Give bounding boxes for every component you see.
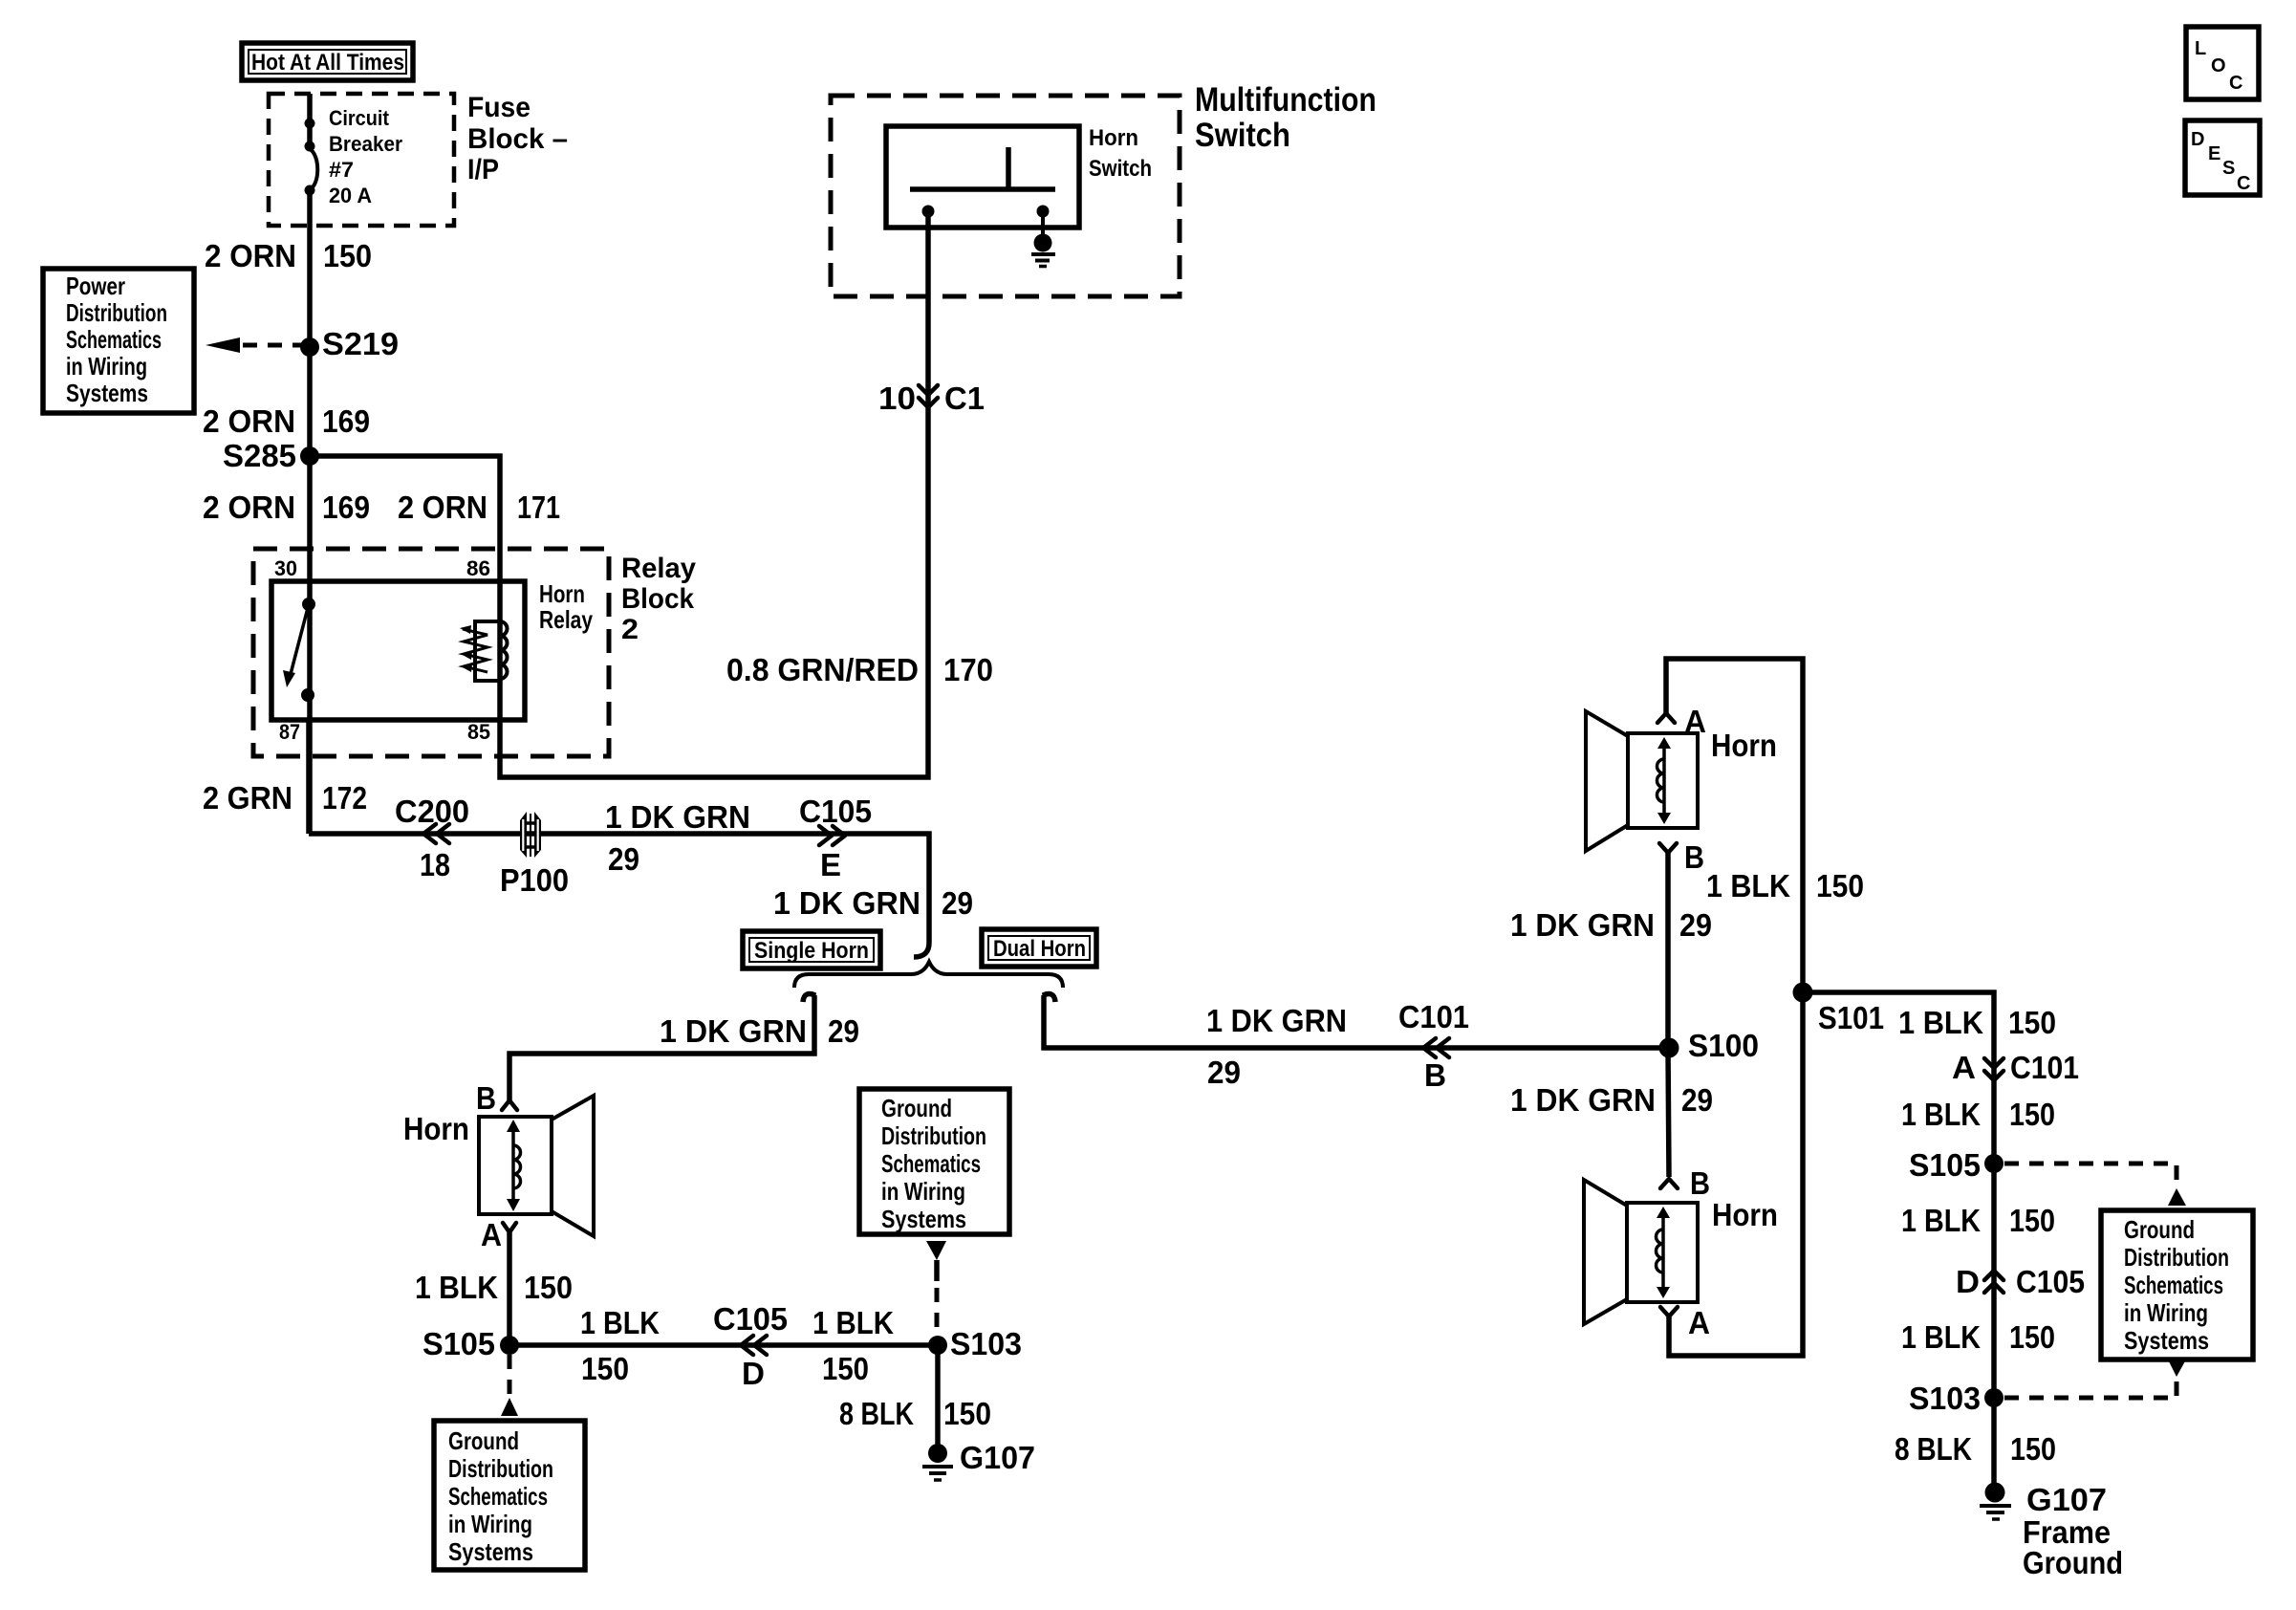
svg-text:1 BLK: 1 BLK [1901, 1097, 1981, 1132]
svg-text:2 ORN: 2 ORN [205, 238, 296, 273]
left horn terminal A yoke [503, 1223, 516, 1232]
svg-text:Horn: Horn [1089, 125, 1138, 151]
svg-text:C105: C105 [799, 794, 872, 829]
svg-text:Systems: Systems [2124, 1326, 2209, 1355]
fuse block dashed box [269, 94, 454, 226]
svg-text:S219: S219 [322, 326, 399, 361]
svg-text:S105: S105 [1909, 1147, 1981, 1183]
node S105 right [1909, 1147, 2004, 1183]
label Relay Block 2 [621, 553, 696, 645]
svg-text:I/P: I/P [467, 154, 499, 185]
svg-text:1 BLK: 1 BLK [580, 1305, 660, 1340]
top-right horn terminal B yoke [1659, 843, 1677, 853]
label 1 DK GRN 29 dual horn branch [1206, 1003, 1347, 1090]
label C101 B [1398, 999, 1469, 1093]
connector C105 chevrons D right [1984, 1271, 2004, 1293]
DESC reference box [2185, 120, 2260, 195]
svg-text:0.8 GRN/RED: 0.8 GRN/RED [726, 652, 919, 687]
label Multifunction Switch [1195, 81, 1376, 154]
box Power Distribution Schematics in Wiring Systems [43, 269, 194, 413]
label Horn Switch [1089, 125, 1152, 182]
svg-text:Horn: Horn [403, 1111, 469, 1146]
horn H3 bottom-right body [1584, 1180, 1698, 1324]
relay coil resistor zigzag [460, 625, 487, 672]
svg-text:Switch: Switch [1089, 156, 1152, 182]
svg-text:Ground: Ground [2124, 1215, 2195, 1244]
relay switch contact 30 [302, 598, 315, 611]
label 10 C1 [878, 381, 985, 416]
svg-text:1 BLK: 1 BLK [1898, 1005, 1983, 1040]
wire horn feed C200 to C105 to corner [309, 834, 929, 957]
label 1 BLK 150 left horn [415, 1270, 573, 1305]
svg-text:D: D [2191, 129, 2204, 150]
label box Dual Horn [982, 929, 1096, 967]
horn H3 coil arrow [1657, 1207, 1670, 1298]
svg-text:1 DK GRN: 1 DK GRN [1510, 907, 1655, 943]
label 1 DK GRN 29 single horn branch [660, 1013, 859, 1049]
dashed reference wire S105 to ground box [501, 1355, 518, 1416]
label 0.8 GRN/RED 170 [726, 652, 993, 687]
node S219 [300, 326, 399, 361]
wire relay 87 down to C200 run [306, 720, 312, 834]
label C105 D [713, 1301, 788, 1391]
svg-text:150: 150 [2008, 1005, 2056, 1040]
svg-text:169: 169 [322, 490, 370, 525]
label 2 ORN 150 [205, 238, 372, 273]
svg-text:29: 29 [1207, 1055, 1241, 1090]
connector C101 chevrons B [1423, 1038, 1449, 1057]
svg-text:B: B [1684, 839, 1704, 875]
horn switch ground wire [1041, 211, 1045, 236]
label 1 BLK 150 top right [1706, 868, 1864, 903]
svg-text:Relay: Relay [539, 605, 593, 634]
horn switch box [886, 126, 1079, 228]
bottom-right horn terminal B caret [1660, 1179, 1678, 1188]
wire horn switch to C1 to relay 85 corner [500, 211, 928, 777]
svg-text:10: 10 [878, 381, 916, 416]
label 1 BLK 150 below S105 right [1901, 1203, 2055, 1238]
ground G107 frame ground [1980, 1483, 2011, 1520]
label Circuit Breaker #7 20 A [329, 106, 402, 207]
relay coil wire pin 86 to 85 [497, 621, 503, 720]
wire dual horn branch [1043, 994, 1669, 1048]
label 1 BLK 150 right segment [812, 1305, 894, 1386]
relay switch contact 87 [301, 688, 314, 702]
dashed reference wire S103 right to ground box [2004, 1360, 2186, 1398]
wire left horn A to S105 [507, 1232, 512, 1345]
label Horn Relay [539, 579, 593, 634]
svg-text:Schematics: Schematics [881, 1149, 981, 1178]
svg-text:150: 150 [2010, 1431, 2056, 1467]
svg-text:C: C [2237, 173, 2250, 194]
svg-text:1 BLK: 1 BLK [415, 1270, 498, 1305]
svg-text:Circuit: Circuit [329, 106, 390, 130]
svg-text:29: 29 [828, 1013, 859, 1049]
label 2 GRN 172 [203, 780, 367, 816]
svg-text:29: 29 [1681, 1082, 1713, 1118]
svg-text:A: A [481, 1217, 502, 1252]
svg-text:Dual Horn: Dual Horn [993, 936, 1086, 962]
label 1 DK GRN 29 above brace [773, 885, 973, 921]
svg-text:C105: C105 [2016, 1264, 2085, 1299]
wire top-right horn A loop to S101 vertical [1666, 659, 1803, 1356]
svg-text:S285: S285 [223, 438, 296, 473]
LOC reference box [2186, 27, 2259, 99]
svg-text:1 BLK: 1 BLK [1901, 1319, 1981, 1355]
svg-text:O: O [2211, 55, 2226, 76]
svg-text:in Wiring: in Wiring [2124, 1298, 2208, 1327]
wire branch S285 to relay pin 86 [310, 456, 500, 621]
horn H2 coil arrow [1657, 737, 1671, 824]
svg-text:29: 29 [1679, 907, 1712, 943]
svg-text:C105: C105 [713, 1301, 788, 1337]
label 1 DK GRN 29 below S100 [1510, 1082, 1713, 1118]
relay block dashed box [253, 549, 609, 756]
svg-text:Schematics: Schematics [448, 1482, 548, 1511]
svg-text:150: 150 [2009, 1097, 2055, 1132]
svg-text:18: 18 [420, 847, 450, 882]
svg-text:S101: S101 [1818, 1000, 1884, 1035]
horn switch terminal left [922, 206, 935, 218]
svg-text:P100: P100 [500, 862, 569, 898]
label 1 DK GRN 29 on horn feed [605, 799, 750, 877]
label C105 E [799, 794, 872, 882]
svg-text:C200: C200 [395, 794, 469, 829]
node S105 left [422, 1326, 519, 1361]
svg-text:Fuse: Fuse [467, 92, 531, 123]
node S101 [1793, 983, 1885, 1036]
svg-text:Power: Power [66, 272, 125, 300]
node S285 [223, 438, 319, 473]
svg-text:150: 150 [581, 1351, 629, 1386]
svg-text:E: E [820, 847, 841, 882]
svg-text:Horn: Horn [1712, 1197, 1778, 1232]
relay coil bracket [475, 621, 500, 681]
label 1 BLK 150 right of S101 wire [1898, 1005, 2056, 1040]
svg-text:1 DK GRN: 1 DK GRN [605, 799, 750, 835]
svg-text:Breaker: Breaker [329, 132, 402, 156]
svg-text:Ground: Ground [2023, 1545, 2123, 1580]
svg-text:20 A: 20 A [329, 184, 372, 207]
svg-text:in Wiring: in Wiring [66, 352, 147, 381]
dashed reference wire from S219 to Power Distribution box [206, 337, 304, 353]
connector C1 chevrons [919, 385, 938, 407]
svg-text:Block –: Block – [467, 123, 568, 155]
svg-text:8 BLK: 8 BLK [1895, 1431, 1972, 1467]
label 2 ORN 169 [203, 403, 370, 439]
label 2 ORN 169 below S285 [203, 490, 370, 525]
label C200 18 [395, 794, 469, 882]
label 1 BLK 150 above S105 right [1901, 1097, 2055, 1132]
svg-text:Systems: Systems [66, 379, 148, 407]
label 1 BLK 150 left segment [580, 1305, 660, 1386]
svg-text:8 BLK: 8 BLK [839, 1396, 914, 1431]
svg-text:Hot At All Times: Hot At All Times [251, 50, 404, 76]
svg-text:2 GRN: 2 GRN [203, 780, 292, 816]
svg-text:in Wiring: in Wiring [448, 1510, 532, 1538]
connector C105 chevrons D [741, 1336, 767, 1355]
svg-text:Horn: Horn [1711, 728, 1777, 763]
ground G107 left [922, 1440, 1035, 1480]
grommet P100 [500, 812, 569, 898]
svg-text:S103: S103 [1909, 1381, 1981, 1416]
svg-text:150: 150 [524, 1270, 573, 1305]
svg-text:D: D [1956, 1264, 1980, 1299]
dashed reference wire S105 right to ground box [2004, 1164, 2186, 1206]
svg-text:G107: G107 [2026, 1482, 2107, 1517]
svg-text:A: A [1952, 1050, 1976, 1085]
svg-text:86: 86 [466, 556, 490, 580]
svg-text:C101: C101 [1398, 999, 1469, 1034]
svg-text:171: 171 [517, 490, 560, 525]
svg-text:1 DK GRN: 1 DK GRN [1206, 1003, 1347, 1038]
svg-text:S100: S100 [1688, 1028, 1759, 1063]
svg-text:Block: Block [621, 583, 694, 615]
horn switch contact bar [910, 186, 1055, 192]
wire 2 ORN 150 breaker to S219 to S285 down to relay 30 [307, 191, 313, 834]
svg-text:150: 150 [2009, 1319, 2055, 1355]
svg-text:Systems: Systems [881, 1205, 966, 1233]
svg-text:Ground: Ground [448, 1426, 519, 1455]
svg-text:Ground: Ground [881, 1094, 952, 1122]
svg-text:D: D [742, 1356, 765, 1391]
svg-text:172: 172 [322, 780, 367, 816]
svg-text:Systems: Systems [448, 1537, 533, 1566]
horn H1 left body [479, 1096, 594, 1236]
svg-text:Schematics: Schematics [66, 325, 162, 354]
horn switch plunger [1006, 147, 1011, 189]
svg-text:150: 150 [323, 238, 372, 273]
alternative brace [794, 962, 1063, 988]
connector C101 chevrons A [1984, 1058, 2004, 1080]
connector C105 chevrons E [819, 826, 845, 845]
svg-text:150: 150 [822, 1351, 869, 1386]
horn H2 top-right body [1586, 711, 1698, 851]
svg-text:#7: #7 [329, 158, 354, 182]
label D C105 right [1956, 1264, 2085, 1299]
wire S105 to S103 ground run [509, 1342, 938, 1348]
node S103 left [928, 1326, 1022, 1361]
svg-text:Multifunction: Multifunction [1195, 81, 1376, 119]
svg-text:1 BLK: 1 BLK [812, 1305, 894, 1340]
box Ground Distribution middle [859, 1089, 1009, 1234]
svg-text:B: B [1690, 1165, 1710, 1201]
svg-text:S105: S105 [422, 1326, 495, 1361]
svg-text:29: 29 [608, 841, 639, 877]
svg-text:G107: G107 [960, 1440, 1035, 1475]
svg-text:Distribution: Distribution [448, 1454, 553, 1483]
svg-text:2: 2 [621, 614, 639, 645]
node S103 right [1909, 1381, 2004, 1416]
wire S103 to G107 [935, 1345, 941, 1453]
wire S101 to right ground chain [1803, 992, 1994, 1492]
svg-text:150: 150 [1816, 868, 1864, 903]
svg-text:1 DK GRN: 1 DK GRN [660, 1013, 807, 1049]
svg-text:Schematics: Schematics [2124, 1271, 2223, 1299]
svg-text:A: A [1688, 1305, 1710, 1340]
svg-text:1 DK GRN: 1 DK GRN [1510, 1082, 1656, 1118]
svg-text:85: 85 [467, 720, 490, 744]
svg-text:170: 170 [943, 652, 993, 687]
svg-text:87: 87 [279, 720, 300, 744]
svg-text:C: C [2229, 73, 2242, 94]
connector C200 chevrons [423, 824, 449, 843]
svg-text:Distribution: Distribution [881, 1121, 986, 1150]
circuit breaker CB7 [305, 119, 318, 196]
svg-text:1 BLK: 1 BLK [1706, 868, 1790, 903]
wire top-right horn B to S100 to bottom-right horn B [1668, 853, 1669, 1177]
node S100 [1659, 1028, 1760, 1063]
label A C101 right [1952, 1050, 2079, 1085]
svg-text:29: 29 [942, 885, 973, 921]
left horn terminal B caret [502, 1100, 517, 1110]
svg-text:1 BLK: 1 BLK [1901, 1203, 1981, 1238]
svg-text:B: B [1424, 1057, 1446, 1093]
wire single horn branch [509, 994, 815, 1100]
label Fuse Block - I/P [467, 92, 568, 185]
svg-text:Switch: Switch [1195, 117, 1290, 154]
label G107 Frame Ground [2023, 1482, 2123, 1580]
svg-text:B: B [476, 1080, 496, 1116]
svg-text:Distribution: Distribution [2124, 1243, 2229, 1272]
ground symbol in horn switch [1031, 234, 1055, 267]
svg-text:C101: C101 [2010, 1050, 2079, 1085]
svg-text:Horn: Horn [539, 579, 585, 608]
svg-text:2 ORN: 2 ORN [203, 403, 295, 439]
label box Hot At All Times [242, 43, 413, 80]
box Ground Distribution right [2101, 1210, 2253, 1360]
label 8 BLK 150 [839, 1396, 991, 1431]
label 1 DK GRN 29 above S100 [1510, 907, 1712, 943]
svg-text:150: 150 [943, 1396, 991, 1431]
relay K1 horn relay box [271, 581, 525, 720]
label 2 ORN 171 [398, 490, 560, 525]
svg-text:Relay: Relay [621, 553, 696, 584]
svg-text:E: E [2208, 143, 2220, 164]
label box Single Horn [743, 931, 880, 968]
horn H1 coil arrow [507, 1120, 521, 1211]
label 1 BLK 150 above S103 right [1901, 1319, 2055, 1355]
svg-text:S: S [2222, 158, 2235, 179]
label 8 BLK 150 right [1895, 1431, 2056, 1467]
svg-text:Single Horn: Single Horn [754, 938, 869, 964]
svg-text:2 ORN: 2 ORN [398, 490, 487, 525]
svg-text:2 ORN: 2 ORN [203, 490, 295, 525]
svg-text:30: 30 [274, 556, 297, 580]
relay coil loops [500, 621, 508, 679]
svg-text:1 DK GRN: 1 DK GRN [773, 885, 921, 921]
top-right horn terminal A caret [1657, 713, 1675, 723]
svg-text:L: L [2195, 38, 2206, 59]
svg-text:C1: C1 [944, 381, 985, 416]
box Ground Distribution left [434, 1421, 585, 1570]
svg-text:S103: S103 [950, 1326, 1022, 1361]
svg-text:in Wiring: in Wiring [881, 1177, 965, 1206]
svg-text:169: 169 [322, 403, 370, 439]
svg-text:150: 150 [2009, 1203, 2055, 1238]
relay switch arm with arrowhead [283, 604, 309, 687]
multifunction switch dashed box [831, 96, 1180, 296]
horn switch terminal right [1037, 206, 1050, 218]
bottom-right horn terminal A yoke [1660, 1307, 1678, 1316]
dashed reference wire middle box to S103 [926, 1241, 946, 1336]
svg-text:Distribution: Distribution [66, 298, 167, 327]
wire from fuse box top to breaker [307, 94, 313, 146]
